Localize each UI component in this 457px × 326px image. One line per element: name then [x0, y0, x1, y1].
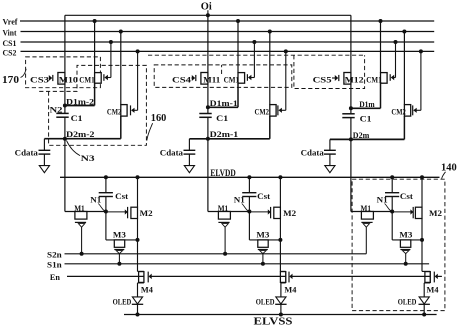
- wire M2 drain to M4: [421, 218, 423, 271]
- junction M3 gate on S1n (left): [117, 262, 121, 266]
- transistor M4: [422, 271, 437, 283]
- transistor CM2: [404, 105, 421, 117]
- wire Oi output line (top): [65, 14, 351, 16]
- label OLED: [113, 297, 132, 307]
- svg-text:N1: N1: [234, 195, 245, 205]
- junction CM2 on Vint: [119, 30, 123, 34]
- junction OLED on ELVSS: [136, 313, 140, 317]
- capacitor Cst: [242, 193, 256, 197]
- junction D2m-2 node: [63, 137, 67, 141]
- junction M3 gate on S1n (right): [404, 262, 408, 266]
- label C1: [71, 113, 83, 123]
- diode OLED: [132, 297, 143, 304]
- label OLED: [398, 297, 417, 307]
- junction CM2 on Vint: [402, 30, 406, 34]
- label D1m-1: [210, 98, 238, 108]
- label En: [50, 272, 60, 282]
- wire Cst top: [248, 177, 250, 192]
- transistor M12: [335, 73, 351, 85]
- junction CM1 gate on CS1: [252, 40, 256, 44]
- wire OLED cathode to ELVSS: [280, 304, 282, 314]
- transistor M2: [125, 207, 137, 219]
- svg-text:OLED: OLED: [256, 297, 275, 307]
- transistor M4: [138, 271, 152, 283]
- junction N1 node: [390, 210, 394, 214]
- svg-text:CS2: CS2: [3, 49, 17, 58]
- dashed box 170 (first sampling block): [26, 57, 101, 88]
- label M11: [203, 75, 220, 85]
- svg-text:M4: M4: [284, 285, 297, 295]
- wire Cst bottom to node N1: [248, 197, 250, 212]
- wire N1 to M2 gate: [106, 211, 125, 213]
- junction OLED on ELVSS: [279, 313, 283, 317]
- svg-text:D2m: D2m: [353, 130, 370, 140]
- label 140: [441, 163, 457, 179]
- wire CM2 source to D2m line: [269, 116, 271, 139]
- svg-text:CM2: CM2: [255, 106, 270, 116]
- wire Cst bottom to node N1: [105, 197, 107, 212]
- capacitor Cdata: [324, 150, 336, 154]
- wire M11 drain column from Oi line: [207, 15, 209, 113]
- wire M4 drain to OLED: [137, 283, 139, 297]
- wire M2 source from ELVDD: [137, 177, 139, 207]
- svg-text:C1: C1: [216, 113, 228, 123]
- svg-text:C1: C1: [71, 113, 83, 123]
- wire D2m-1 node line: [189, 138, 269, 140]
- label CS3: [30, 75, 49, 85]
- label Cst: [400, 191, 413, 201]
- label CS5: [313, 75, 336, 85]
- wire data column to pixel: [64, 117, 66, 211]
- junction M2 on ELVDD: [420, 175, 424, 179]
- label D1m-2: [66, 96, 94, 106]
- junction N1 node: [104, 210, 108, 214]
- junction M2 on ELVDD: [136, 175, 140, 179]
- wire CM2 gate to CS2: [137, 51, 139, 110]
- node N2 label: [50, 104, 63, 114]
- junction M2-M3 node: [278, 238, 282, 242]
- svg-text:D1m: D1m: [359, 99, 375, 109]
- wire S2n scan line: [65, 253, 367, 255]
- svg-text:N1: N1: [377, 195, 388, 205]
- transistor M2: [268, 207, 280, 219]
- label D2m: [353, 130, 370, 140]
- junction D1m node: [349, 106, 353, 110]
- junction D1m-2 node: [63, 104, 67, 108]
- label CM1: [366, 75, 382, 85]
- wire D1m node line: [351, 83, 381, 108]
- wire M2 source from ELVDD: [279, 177, 281, 207]
- wire M1 gate to S2n: [224, 227, 226, 254]
- svg-text:M2: M2: [140, 208, 153, 218]
- label CM2: [107, 106, 122, 116]
- wire CM2 drain to Vint: [403, 32, 405, 105]
- wire D1m-2 node line: [65, 83, 95, 105]
- label M1: [218, 203, 229, 213]
- svg-text:N3: N3: [81, 153, 95, 163]
- wire CM1 drain to Vref: [237, 21, 239, 73]
- junction M2 on ELVDD: [278, 175, 282, 179]
- wire Cdata riser: [329, 139, 331, 150]
- transistor CM1: [381, 73, 396, 84]
- label M3: [256, 230, 269, 240]
- junction Oi line to M11 column: [206, 13, 210, 17]
- label D2m-1: [210, 129, 239, 139]
- label M4: [141, 285, 154, 295]
- label M3: [113, 230, 126, 240]
- node CS1 label: [3, 39, 17, 48]
- wire D2m node line: [330, 138, 405, 140]
- junction M2-M3 node: [136, 238, 140, 242]
- wire OLED cathode to ELVSS: [137, 304, 139, 314]
- svg-text:M11: M11: [203, 75, 220, 85]
- wire N1 to M2 gate: [249, 211, 268, 213]
- svg-text:M1: M1: [74, 203, 85, 213]
- wire data column to pixel: [207, 117, 209, 211]
- wire Cdata riser: [188, 139, 190, 151]
- wire D2m-2 node line: [44, 138, 120, 140]
- svg-text:M12: M12: [345, 75, 364, 85]
- capacitor C1: [342, 114, 354, 118]
- transistor M10: [49, 73, 65, 85]
- transistor M1: [208, 212, 250, 228]
- wire CM2 gate to CS2: [420, 51, 422, 110]
- wire En emission line: [67, 275, 442, 277]
- wire M1 gate to S2n: [81, 227, 83, 254]
- svg-text:M4: M4: [141, 285, 154, 295]
- label ELVDD: [210, 169, 236, 179]
- wire Cdata to ground: [188, 154, 190, 166]
- label D2m-2: [66, 129, 95, 139]
- ground below Cdata: [325, 166, 335, 173]
- wire Cst top: [391, 177, 393, 192]
- junction CM2 gate on CS2: [284, 49, 288, 53]
- label CM2: [391, 106, 406, 116]
- wire Cdata to ground: [43, 154, 45, 166]
- node Vref label: [3, 18, 18, 27]
- transistor M3: [106, 212, 138, 254]
- wire CM2 source to D2m line: [120, 116, 122, 139]
- svg-text:CS5: CS5: [313, 75, 332, 85]
- wire CM1 gate to CS1: [395, 42, 397, 78]
- wire ELVSS rail: [124, 314, 437, 316]
- wire CS1 bus: [21, 41, 435, 43]
- svg-text:CM1: CM1: [79, 75, 95, 85]
- svg-text:S2n: S2n: [47, 249, 62, 259]
- capacitor Cst: [99, 193, 113, 197]
- label N3: [67, 141, 95, 163]
- node CS2 label: [3, 49, 17, 58]
- node Oi label: [201, 2, 212, 16]
- wire Cdata riser: [43, 139, 45, 151]
- svg-text:C1: C1: [360, 113, 372, 123]
- capacitor C1: [56, 113, 68, 117]
- wire M2 source from ELVDD: [421, 177, 423, 207]
- svg-text:Oi: Oi: [201, 2, 212, 13]
- wire CM2 drain to Vint: [269, 32, 271, 105]
- wire CM2 drain to Vint: [120, 32, 122, 105]
- label N1: [90, 195, 104, 211]
- label S1n: [47, 259, 62, 269]
- junction N1 node: [247, 210, 251, 214]
- transistor M2: [411, 207, 422, 219]
- wire M12 drain column from Oi line: [350, 15, 352, 114]
- svg-text:CS4: CS4: [172, 75, 192, 85]
- label ELVSS: [254, 316, 294, 326]
- junction CM2 gate on CS2: [136, 49, 140, 53]
- svg-text:Vref: Vref: [3, 18, 18, 27]
- label CM1: [224, 75, 240, 85]
- svg-text:En: En: [50, 272, 60, 282]
- capacitor Cdata: [39, 150, 51, 154]
- svg-text:Cst: Cst: [115, 191, 128, 201]
- wire M1 gate to S2n: [365, 227, 367, 254]
- transistor M3: [392, 212, 422, 254]
- dashed box 140 (pixel circuit): [352, 179, 445, 310]
- svg-text:140: 140: [441, 163, 457, 174]
- junction OLED on ELVSS: [422, 313, 426, 317]
- wire CM1 drain to Vref: [380, 21, 382, 73]
- label M2: [283, 208, 296, 218]
- wire M4 drain to OLED: [280, 283, 282, 297]
- wire N1 to M2 gate: [392, 211, 410, 213]
- svg-text:D2m-2: D2m-2: [66, 129, 95, 139]
- wire Vref bus: [20, 20, 434, 22]
- label Cst: [115, 191, 128, 201]
- dashed line above middle and right blocks: [148, 54, 365, 56]
- svg-text:OLED: OLED: [113, 297, 132, 307]
- wire M2 drain to M4: [137, 218, 139, 271]
- label C1: [360, 113, 372, 123]
- label M1: [361, 203, 372, 213]
- junction CM1 on Vref: [93, 19, 97, 23]
- svg-text:CS3: CS3: [30, 75, 49, 85]
- svg-text:170: 170: [2, 75, 19, 86]
- wire Cdata to ground: [329, 154, 331, 166]
- diode OLED: [419, 297, 430, 304]
- wire M10 drain column from Oi line: [64, 15, 66, 113]
- wire M3 gate to S1n: [405, 254, 407, 264]
- label Cdata: [15, 147, 39, 157]
- svg-text:D1m-1: D1m-1: [210, 98, 238, 108]
- ground below Cdata: [184, 166, 194, 173]
- wire data column to pixel: [350, 118, 352, 212]
- wire CM2 gate to CS2: [285, 51, 287, 110]
- label Cdata: [301, 147, 325, 157]
- dashed box around CS4/M11/CM1 (middle): [154, 65, 292, 88]
- capacitor Cst: [385, 193, 399, 197]
- label S2n: [47, 249, 62, 259]
- svg-text:M4: M4: [427, 285, 440, 295]
- label CM1: [79, 75, 95, 85]
- svg-text:160: 160: [151, 113, 167, 124]
- svg-text:Cdata: Cdata: [160, 147, 184, 157]
- capacitor C1: [199, 114, 211, 118]
- junction Cst on ELVDD: [390, 175, 394, 179]
- junction CM1 gate on CS1: [109, 40, 113, 44]
- label M3: [399, 230, 412, 240]
- svg-text:Cst: Cst: [257, 191, 270, 201]
- transistor CM1: [95, 73, 111, 84]
- junction M3 gate on S1n (middle): [261, 262, 265, 266]
- wire M3 gate to S1n: [118, 254, 120, 264]
- label D1m: [359, 99, 375, 109]
- wire OLED cathode to ELVSS: [423, 304, 425, 314]
- label Cdata: [160, 147, 184, 157]
- wire CM1 gate to CS1: [253, 42, 255, 78]
- junction M2-M3 node: [420, 238, 424, 242]
- svg-text:M1: M1: [361, 203, 372, 213]
- transistor CM2: [121, 105, 138, 117]
- svg-text:M2: M2: [429, 208, 442, 218]
- diode OLED: [275, 297, 286, 304]
- label M2: [140, 208, 153, 218]
- svg-text:CM2: CM2: [107, 106, 122, 116]
- label M1: [74, 203, 85, 213]
- label M10: [59, 75, 78, 85]
- svg-text:M1: M1: [218, 203, 229, 213]
- svg-text:M3: M3: [256, 230, 269, 240]
- junction M1 gate on S2n (left): [80, 252, 84, 256]
- svg-text:Cdata: Cdata: [301, 147, 325, 157]
- svg-text:N1: N1: [90, 195, 101, 205]
- junction Cst on ELVDD: [247, 175, 251, 179]
- wire D1m-1 node line: [208, 83, 238, 107]
- wire CM1 drain to Vref: [94, 21, 96, 73]
- label Cst: [257, 191, 270, 201]
- label N1: [234, 195, 248, 211]
- svg-text:S1n: S1n: [47, 259, 62, 269]
- transistor CM2: [270, 105, 286, 117]
- transistor M1: [351, 212, 392, 228]
- wire CM2 source to D2m line: [403, 116, 405, 139]
- junction CM1 on Vref: [379, 19, 383, 23]
- capacitor Cdata: [184, 150, 196, 154]
- svg-text:M2: M2: [283, 208, 296, 218]
- junction D1m-1 node: [206, 105, 210, 109]
- ground below Cdata: [39, 166, 49, 173]
- svg-text:ELVDD: ELVDD: [210, 169, 236, 179]
- dashed box around CS5/M12/CM1 (right): [294, 55, 365, 88]
- svg-text:CM1: CM1: [366, 75, 382, 85]
- svg-text:Cdata: Cdata: [15, 147, 39, 157]
- junction M1 gate on S2n (middle): [223, 252, 227, 256]
- svg-text:CM1: CM1: [224, 75, 240, 85]
- wire M2 drain to M4: [279, 218, 281, 271]
- junction CM2 on Vint: [268, 30, 272, 34]
- wire Vint bus: [21, 31, 435, 33]
- transistor CM1: [238, 73, 254, 84]
- svg-text:Vint: Vint: [3, 29, 17, 38]
- dashed divider stub inside middle box: [221, 65, 223, 74]
- svg-text:D1m-2: D1m-2: [66, 96, 94, 106]
- dashed box 160 (current mirror block, left): [39, 65, 146, 145]
- label M12: [345, 75, 364, 85]
- label 160: [147, 113, 167, 141]
- label M2: [429, 208, 442, 218]
- transistor M3: [249, 212, 280, 254]
- svg-text:CM2: CM2: [391, 106, 406, 116]
- label 170: [2, 69, 26, 86]
- svg-text:D2m-1: D2m-1: [210, 129, 239, 139]
- label CS4: [172, 75, 192, 85]
- wire CM1 gate to CS1: [110, 42, 112, 78]
- junction CM2 gate on CS2: [419, 49, 423, 53]
- wire M4 drain to OLED: [423, 283, 425, 297]
- junction Cst on ELVDD: [104, 175, 108, 179]
- svg-text:M10: M10: [59, 75, 78, 85]
- junction D2m node: [349, 137, 353, 141]
- node Vint label: [3, 29, 17, 38]
- svg-text:M3: M3: [113, 230, 126, 240]
- transistor M1: [65, 212, 106, 228]
- transistor M4: [280, 271, 292, 283]
- label OLED: [256, 297, 275, 307]
- svg-text:CS1: CS1: [3, 39, 17, 48]
- junction CM1 on Vref: [236, 19, 240, 23]
- junction D2m-1 node: [206, 137, 210, 141]
- svg-text:OLED: OLED: [398, 297, 417, 307]
- label C1: [216, 113, 228, 123]
- wire Cst bottom to node N1: [391, 197, 393, 212]
- wire CS2 bus: [21, 50, 435, 52]
- label CM2: [255, 106, 270, 116]
- svg-text:M3: M3: [399, 230, 412, 240]
- label M4: [427, 285, 440, 295]
- svg-text:ELVSS: ELVSS: [254, 316, 294, 326]
- label N1: [377, 195, 391, 211]
- wire S1n scan line: [65, 263, 430, 265]
- svg-text:Cst: Cst: [400, 191, 413, 201]
- wire ELVDD rail: [60, 176, 440, 178]
- wire M3 gate to S1n: [262, 254, 264, 264]
- junction CM1 gate on CS1: [394, 40, 398, 44]
- wire Cst top: [105, 177, 107, 192]
- label M4: [284, 285, 297, 295]
- transistor M11: [192, 73, 208, 85]
